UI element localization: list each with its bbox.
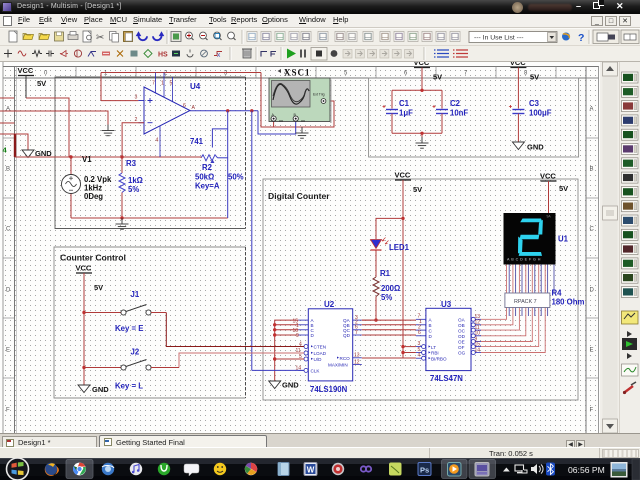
svg-text:5: 5	[170, 81, 173, 87]
wire C3 bottom	[517, 114, 519, 143]
svg-text:C: C	[6, 227, 11, 233]
svg-text:D: D	[590, 288, 595, 294]
svg-text:50kΩ: 50kΩ	[195, 173, 214, 182]
wire R2 wiper	[212, 129, 227, 148]
in use list combo	[469, 32, 557, 43]
svg-text:VCC: VCC	[395, 171, 411, 180]
junction R1/QA	[374, 318, 377, 321]
wire R2 left	[200, 156, 202, 159]
svg-text:A: A	[590, 107, 594, 113]
wire GND branch	[15, 134, 28, 150]
wire J2 out	[151, 367, 179, 369]
display pin wire	[553, 264, 555, 294]
chrome (active)	[66, 460, 93, 479]
rpack top wire	[518, 264, 520, 294]
wire data pin	[275, 329, 299, 331]
left margin stub wire y123	[0, 122, 15, 124]
svg-text:CTEN: CTEN	[314, 345, 327, 350]
svg-text:GND: GND	[92, 385, 109, 394]
svg-text:200Ω: 200Ω	[381, 284, 400, 293]
svg-text:C3: C3	[529, 99, 540, 108]
svg-text:VCC: VCC	[540, 172, 556, 181]
analog amplifier group box	[55, 77, 246, 229]
seven-segment display U1	[504, 213, 556, 265]
wire R3 top	[121, 157, 123, 173]
ground under R3	[116, 218, 129, 229]
svg-text:Ext Trig: Ext Trig	[313, 93, 325, 97]
LED LED1	[371, 238, 389, 251]
VCC (counter control)	[76, 264, 93, 274]
zoom a	[214, 32, 221, 39]
save	[55, 32, 64, 41]
wire to scope B	[258, 111, 296, 134]
svg-text:RCO: RCO	[340, 356, 351, 361]
svg-text:V1: V1	[82, 155, 92, 164]
infinity app	[361, 466, 371, 471]
ground GND (triangle, left)	[22, 150, 34, 158]
wire op-amp + input	[101, 100, 138, 102]
sheet border and rulers	[3, 62, 599, 433]
delete	[243, 49, 251, 58]
svg-text:7: 7	[355, 330, 358, 336]
wire C2 top	[441, 90, 443, 108]
svg-text:RPACK 7: RPACK 7	[514, 299, 537, 305]
wire segment drive	[481, 306, 519, 330]
junction LED branch	[401, 217, 404, 220]
junction bottom	[120, 216, 123, 219]
toolbars	[0, 28, 640, 62]
zoom +	[186, 32, 193, 39]
right toggle buttons	[593, 30, 619, 44]
rpack top wire	[525, 264, 527, 294]
rpack bottom stub	[515, 306, 517, 316]
smiley	[214, 463, 226, 475]
capacitor C2	[436, 110, 448, 114]
junction J2	[82, 366, 85, 369]
display pin wire	[540, 264, 542, 294]
wire LT	[403, 346, 416, 348]
picasa	[245, 463, 257, 475]
svg-text:OG: OG	[458, 351, 466, 356]
ground (multi, left)	[102, 125, 115, 136]
svg-text:5V: 5V	[94, 283, 103, 292]
redo	[153, 36, 162, 41]
wire LED to R1	[375, 250, 377, 277]
svg-text:741: 741	[190, 137, 204, 146]
svg-text:U3: U3	[441, 300, 452, 309]
svg-text:C: C	[590, 227, 595, 233]
desktop peek photo	[611, 462, 628, 478]
wire VCC to J1	[84, 312, 121, 314]
junction caps bottom	[420, 132, 423, 135]
wire VCC to caps	[421, 68, 423, 91]
junction RBI	[401, 351, 404, 354]
svg-text:5V: 5V	[559, 184, 568, 193]
wire VCC rail down	[83, 273, 85, 385]
svg-text:5V: 5V	[37, 79, 46, 88]
resistor R1	[373, 277, 379, 297]
svg-text:C1: C1	[399, 99, 410, 108]
wire segment drive	[481, 306, 526, 336]
svg-text:OD: OD	[458, 334, 466, 339]
svg-text:9A: 9A	[547, 215, 552, 219]
svg-text:VCC: VCC	[510, 62, 526, 67]
svg-text:R2: R2	[202, 163, 213, 172]
wire op-amp output	[190, 110, 258, 112]
svg-text:E: E	[6, 348, 10, 354]
ground under caps	[416, 137, 429, 148]
svg-text:180 Ohm: 180 Ohm	[552, 298, 585, 307]
svg-text:B: B	[6, 167, 10, 173]
svg-text:0Deg: 0Deg	[84, 192, 103, 201]
svg-text:U/D: U/D	[314, 357, 323, 362]
svg-text:5V: 5V	[433, 73, 442, 82]
svg-text:10nF: 10nF	[450, 109, 468, 118]
wire Q bus	[362, 329, 416, 331]
junction	[273, 323, 276, 326]
junction V1 top	[69, 155, 72, 158]
copy	[110, 32, 117, 41]
print	[68, 35, 78, 40]
svg-text:14: 14	[475, 347, 481, 353]
print preview	[83, 31, 91, 42]
wire V1 stems	[70, 157, 72, 175]
svg-text:✂: ✂	[96, 33, 104, 44]
svg-text:5V: 5V	[413, 185, 422, 194]
ground GND (under U2)	[269, 381, 281, 389]
rpack bottom stub	[527, 306, 529, 316]
wire R2 right/output drop	[227, 111, 229, 218]
svg-text:J1: J1	[131, 290, 140, 299]
display pin wire	[521, 264, 523, 294]
VCC (display)	[540, 172, 557, 182]
wire main bus	[15, 156, 201, 158]
capacitor C3	[512, 110, 524, 114]
wire C2 bottom	[441, 114, 443, 134]
wire RBI	[403, 352, 416, 354]
junction J1	[82, 311, 85, 314]
wire inverting input	[122, 123, 144, 157]
wire Q bus	[362, 324, 416, 326]
junction LT	[401, 345, 404, 348]
wire VCC down to U3 pull-ups	[402, 180, 404, 358]
digital counter group box	[263, 179, 578, 400]
VCC (cap C3)	[510, 58, 527, 68]
svg-text:B: B	[429, 323, 432, 328]
svg-text:Key = L: Key = L	[115, 382, 143, 391]
right scrollbar and instruments toolbar	[600, 62, 640, 433]
full screen	[171, 32, 181, 42]
svg-text:Digital Counter: Digital Counter	[268, 191, 330, 201]
svg-text:R3: R3	[126, 159, 137, 168]
svg-text:?: ?	[578, 32, 584, 44]
svg-text:MAX/MIN: MAX/MIN	[328, 363, 348, 368]
component toolbar icons	[4, 50, 12, 58]
junction U/D	[273, 357, 276, 360]
volume icon	[531, 464, 543, 474]
wire to LED	[376, 218, 403, 239]
display pin wire	[534, 264, 536, 294]
wire caps bottom	[392, 132, 442, 134]
wire rail down right	[261, 73, 334, 128]
svg-text:F: F	[6, 408, 10, 414]
wire segment drive	[481, 306, 507, 319]
switch J2	[112, 360, 151, 371]
wire CLK	[252, 369, 304, 371]
svg-text:7: 7	[152, 81, 155, 87]
wire segment drive	[481, 306, 539, 347]
svg-text:BI/RBO: BI/RBO	[431, 356, 447, 361]
tray up arrow	[503, 468, 510, 472]
svg-text:VCC: VCC	[18, 66, 34, 75]
firefox	[45, 463, 59, 476]
word	[304, 463, 317, 476]
zoom -	[200, 32, 207, 39]
svg-text:Counter Control: Counter Control	[60, 253, 126, 263]
wire V+ rail riser	[100, 73, 102, 101]
svg-text:5V: 5V	[530, 73, 539, 82]
svg-text:R4: R4	[552, 289, 563, 298]
display pin wire	[515, 264, 517, 294]
rpack top wire	[506, 264, 508, 294]
record	[331, 50, 338, 57]
globe help	[562, 33, 570, 41]
wire R2 right-stub	[218, 157, 228, 159]
wire J1 out	[151, 312, 166, 314]
itunes	[130, 463, 142, 475]
list blue	[434, 50, 449, 57]
IC U2 74LS190N	[293, 309, 362, 381]
wire caps top	[392, 89, 442, 91]
svg-text:13: 13	[354, 353, 360, 359]
svg-text:GND: GND	[527, 143, 544, 152]
wire to ground	[421, 133, 423, 137]
svg-text:GND: GND	[282, 381, 299, 390]
svg-text:6: 6	[418, 330, 421, 336]
junction output R2	[226, 109, 229, 112]
paste	[124, 32, 133, 42]
wire Q bus	[362, 319, 416, 321]
counter control group box	[54, 247, 246, 398]
svg-text:A: A	[6, 107, 10, 113]
svg-text:1kΩ: 1kΩ	[128, 176, 143, 185]
new	[9, 31, 17, 42]
pause	[301, 50, 305, 58]
svg-text:ABCDEFGH: ABCDEFGH	[507, 258, 542, 262]
svg-text:1: 1	[161, 81, 164, 87]
svg-text:A: A	[192, 105, 196, 111]
wire VCC stem	[25, 76, 27, 99]
title bar	[0, 0, 640, 14]
open sample	[39, 34, 50, 40]
junction output tap	[250, 109, 253, 112]
utorrent	[158, 463, 170, 475]
svg-text:HS: HS	[158, 52, 168, 59]
svg-text:1μF: 1μF	[399, 109, 413, 118]
messenger bubble	[184, 464, 199, 476]
svg-text:4: 4	[156, 138, 159, 144]
app window (active)	[469, 460, 496, 479]
wire segment drive	[481, 306, 545, 353]
svg-text:VCC: VCC	[76, 264, 92, 273]
wire U/D pin	[275, 358, 304, 360]
svg-text:Key = E: Key = E	[115, 324, 143, 333]
svg-text:QD: QD	[343, 333, 351, 338]
wire output to CLK (long vertical)	[251, 111, 253, 371]
svg-text:06:56 PM: 06:56 PM	[568, 465, 605, 475]
wire C3 top	[517, 68, 519, 109]
svg-text:OC: OC	[458, 328, 466, 333]
rpack top wire	[512, 264, 514, 294]
IC U3 74LS47N	[416, 308, 481, 370]
wire segment drive	[481, 306, 513, 325]
svg-text:12: 12	[354, 359, 360, 365]
svg-text:B: B	[590, 167, 594, 173]
op-amp U4	[138, 73, 190, 158]
status bar	[0, 447, 640, 458]
sheet tab bar	[0, 433, 640, 447]
photoshop Ps	[418, 463, 431, 476]
ground under scope	[296, 127, 309, 138]
wire Q bus	[362, 334, 416, 336]
misc toolbar icons	[247, 32, 257, 42]
VCC (caps C1 C2)	[414, 58, 431, 68]
wire J2 to LOAD	[179, 353, 304, 368]
menu bar	[0, 14, 640, 28]
resistor pack R4	[505, 293, 550, 308]
svg-text:J2: J2	[131, 348, 140, 357]
rpack bottom stub	[508, 306, 510, 316]
potentiometer R2	[201, 155, 218, 161]
wire C1 bottom	[391, 114, 393, 134]
red app	[332, 463, 344, 475]
wire C1 top	[391, 90, 393, 108]
display pin wire	[547, 264, 549, 294]
ie blue	[102, 463, 114, 475]
wire bottom return	[71, 217, 228, 219]
wire J1 to CTEN	[166, 313, 304, 347]
wire segment drive	[481, 306, 532, 342]
rpack top wire	[538, 264, 540, 294]
svg-text:D: D	[6, 288, 11, 294]
notebook	[278, 463, 289, 476]
wire V+ top rail	[101, 72, 261, 74]
VCC (digital counter)	[395, 171, 412, 181]
svg-text:XSC1: XSC1	[284, 68, 311, 78]
display pin wire	[527, 264, 529, 294]
svg-text:R1: R1	[380, 269, 391, 278]
svg-text:VCC: VCC	[414, 62, 430, 67]
resistor R3	[119, 173, 125, 193]
wire R3 bottom	[121, 193, 123, 219]
svg-text:4: 4	[418, 353, 421, 359]
switch J1	[112, 305, 151, 316]
svg-text:Key=A: Key=A	[195, 182, 220, 191]
schematic canvas	[0, 62, 640, 433]
rpack top wire	[544, 264, 546, 294]
run	[287, 49, 296, 59]
svg-text:LOAD: LOAD	[314, 351, 327, 356]
svg-text:5%: 5%	[128, 185, 139, 194]
oscilloscope XSC1	[269, 78, 332, 123]
svg-text:C2: C2	[450, 99, 461, 108]
svg-text:U1: U1	[558, 235, 569, 244]
ground GND (counter control)	[78, 385, 90, 393]
AC source V1	[62, 175, 81, 194]
wire rail to J2	[84, 367, 121, 369]
wire VCC to display	[548, 181, 550, 213]
ground GND C3	[512, 142, 524, 150]
junction R3 top	[120, 155, 123, 158]
undo	[138, 36, 147, 41]
wire scope A drop	[273, 122, 275, 127]
svg-text:100μF: 100μF	[529, 109, 552, 118]
svg-text:2: 2	[135, 117, 138, 123]
media player (active)	[442, 460, 468, 479]
network icon	[515, 465, 527, 473]
wire VCC feed	[26, 98, 69, 157]
rpack bottom stub	[540, 306, 542, 316]
svg-text:50%: 50%	[228, 173, 244, 182]
svg-text:F: F	[590, 408, 594, 414]
windows taskbar	[0, 458, 640, 480]
svg-text:E: E	[590, 348, 594, 354]
capacitor C1	[386, 110, 398, 114]
svg-text:LED1: LED1	[389, 243, 410, 252]
wiper arrow	[210, 159, 214, 163]
junction caps top	[420, 89, 423, 92]
svg-text:3: 3	[135, 95, 138, 101]
wire data pin	[275, 324, 299, 326]
wire data pin	[275, 334, 299, 336]
wire mode	[261, 52, 267, 57]
evernote-ish	[389, 463, 402, 476]
svg-text:6: 6	[183, 103, 186, 109]
rpack bottom stub	[521, 306, 523, 316]
svg-text:CLK: CLK	[311, 369, 321, 374]
svg-text:OF: OF	[458, 345, 465, 350]
rpack top wire	[531, 264, 533, 294]
svg-text:OB: OB	[458, 323, 465, 328]
left margin stub wire y98	[0, 97, 14, 99]
svg-text:W: W	[307, 466, 315, 475]
rpack bottom stub	[534, 306, 536, 316]
wire RCO to BI/RBO	[362, 357, 416, 359]
stop box	[311, 48, 327, 61]
bypass caps group box	[369, 78, 579, 157]
svg-text:OA: OA	[458, 318, 466, 323]
VCC power symbol (analog)	[18, 66, 35, 76]
wire U2 data inputs to GND	[275, 320, 299, 381]
left margin wire to ground	[0, 111, 108, 125]
bluetooth icon	[546, 463, 555, 476]
left margin stub wire y134	[0, 133, 15, 135]
svg-text:Ps: Ps	[420, 465, 429, 474]
svg-text:RBI: RBI	[431, 351, 439, 356]
svg-text:U4: U4	[190, 82, 201, 91]
zoom f	[228, 32, 235, 39]
junction	[273, 328, 276, 331]
svg-text:--- In Use List ---: --- In Use List ---	[474, 35, 523, 42]
svg-text:U2: U2	[324, 300, 335, 309]
svg-text:74LS47N: 74LS47N	[430, 374, 463, 383]
svg-text:LT: LT	[431, 345, 436, 350]
svg-text:5%: 5%	[381, 293, 392, 302]
display pin wire	[508, 264, 510, 294]
rpack bottom stub	[547, 306, 549, 316]
open	[23, 34, 34, 40]
junction	[273, 333, 276, 336]
